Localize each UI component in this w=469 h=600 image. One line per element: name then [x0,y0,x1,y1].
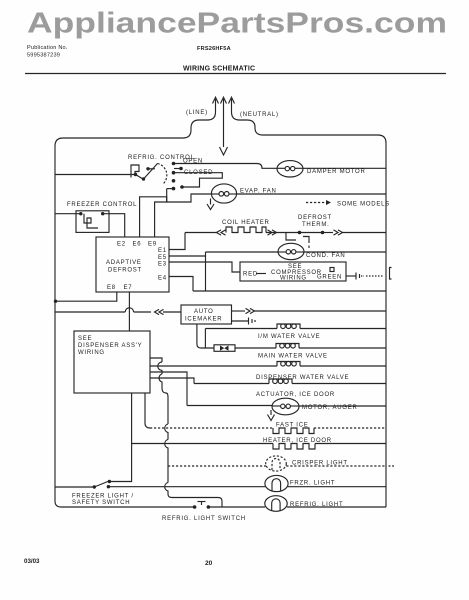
connector chevrons coil heater right [268,230,277,235]
svg-text:MAIN WATER VALVE: MAIN WATER VALVE [258,354,328,360]
svg-text:FRS26HF5A: FRS26HF5A [197,46,231,52]
svg-text:SEE: SEE [78,336,92,342]
wire heater ice door to right bus [315,443,386,445]
lamp refrig light DS3 [265,496,287,512]
svg-text:DAMPER MOTOR: DAMPER MOTOR [307,169,366,175]
wire dispenser feed down with hops [150,358,222,507]
svg-text:COND. FAN: COND. FAN [306,253,345,259]
wire crisper row left dashed [168,465,266,467]
lamp crisper light DS1 (dashed) [266,456,287,471]
svg-text:E3: E3 [158,262,167,268]
connector bracket right of bus [390,268,392,280]
label DEFROST THERM. [298,215,332,228]
svg-text:ACTUATOR, ICE DOOR: ACTUATOR, ICE DOOR [256,392,335,398]
wire E5 to junction [169,255,206,257]
wire coil heater row left [185,232,217,234]
resistor coil heater [226,227,266,233]
dispenser assembly box [74,331,150,393]
cond fan motor M3 [206,243,305,259]
svg-text:E9: E9 [148,242,157,248]
label pins E2 E6 E9 [117,242,157,248]
wire crisper to right bus dashed [286,465,386,467]
fuse main water valve F1 [214,345,235,352]
svg-text:E4: E4 [158,276,167,282]
evap fan motor M2 [211,184,236,203]
wire safety switch to dispenser box [109,393,131,482]
wire left bus (LINE) [55,146,61,507]
node NEUTRAL supply arrow [229,97,240,120]
wire heater ice door row left [132,443,273,445]
wire fuse to main valve coil [235,347,276,349]
wire dispenser valve row [150,365,277,367]
svg-text:ADAPTIVE: ADAPTIVE [106,260,142,266]
wire refrig light row to lamp [208,506,265,508]
node LINE supply arrow [208,97,219,120]
node freezer control terminal 1 [79,212,82,215]
wire CLOSED contact zigzag [174,173,223,187]
ground auger motor case [268,410,275,421]
svg-text:(LINE): (LINE) [186,110,208,116]
svg-text:E6: E6 [133,242,142,248]
wire bus tap to refrig control pole [55,174,135,176]
svg-text:RED: RED [243,272,258,278]
switch freezer light safety S2 [93,480,112,489]
wire OPEN contact to damper motor [174,164,278,169]
node refrig control pole dot [134,173,137,176]
label ADAPTIVE DEFROST [106,260,142,274]
svg-text:ICEMAKER: ICEMAKER [185,317,222,323]
node ground prong arrow [220,97,228,155]
svg-text:E7: E7 [124,285,133,291]
svg-text:DEFROST: DEFROST [108,268,142,274]
wire E6 riser to refrig control [166,189,168,202]
svg-text:FREEZER CONTROL: FREEZER CONTROL [67,202,137,208]
node contact CLOSED [172,171,176,175]
switch refrig control arm [136,164,158,181]
wire I/M valve row left [205,329,277,349]
wire fast ice to right bus dashed [314,427,386,429]
wire E3 to compressor box [169,262,240,272]
svg-text:DISPENSER WATER VALVE: DISPENSER WATER VALVE [256,375,349,381]
svg-text:AppliancePartsPros.com: AppliancePartsPros.com [27,8,447,40]
legend SOME MODELS dashed arrow [306,200,331,205]
switch refrig light S3 [193,502,210,509]
wire E4 riser [169,277,193,292]
wire actuator to right bus [292,383,386,385]
svg-text:COIL HEATER: COIL HEATER [222,220,270,226]
connector stub right of bus at crisper row [389,465,395,467]
wire E6 riser [140,197,167,237]
node contact lower mid [172,179,176,183]
switch freezer control bimetal step [84,214,98,228]
header rule [25,73,446,75]
wire icemaker feed from left bus with hop [55,308,151,312]
capacitor mark in compressor box [330,268,334,272]
compressor wiring box [240,262,346,281]
wire icemaker box to main valve row [197,324,214,348]
svg-text:AUTO: AUTO [194,309,214,315]
solenoid dispenser water valve L3 [277,361,300,366]
svg-text:GREEN: GREEN [317,275,342,281]
lamp freezer light DS2 [265,475,288,491]
svg-text:I/M WATER VALVE: I/M WATER VALVE [258,334,320,340]
wire compressor to right bus dashed [366,275,384,277]
resistor fast ice R1 [273,428,314,434]
wire auger row left [187,405,272,407]
resistor heater ice door R2 [273,444,315,450]
wire bus tap to freezer light switch [55,486,94,488]
node contact joint dot [180,185,184,189]
wire auger motor to right bus [299,405,386,407]
connector chevrons defrost right [334,230,343,235]
svg-text:WIRING SCHEMATIC: WIRING SCHEMATIC [183,66,255,73]
wire icemaker output to right bus [254,310,386,312]
svg-text:Publication No.: Publication No. [27,45,68,51]
svg-text:E2: E2 [117,242,126,248]
wire main valve to right bus [299,347,386,349]
label pins E1 E5 E3 E4 [158,248,167,282]
wire freezer light to right bus [288,486,386,488]
wire fast ice row left dashed [150,427,273,429]
wire evap fan to right bus [237,193,387,195]
node refrig control aux contact [146,167,155,170]
wire icemaker output [232,310,246,312]
wire coil heater to therm [266,232,299,234]
wire E7 riser to dispenser box [128,292,130,331]
solenoid I/M water valve L1 [277,324,300,329]
node freezer control terminal 2 [101,212,104,215]
defrost thermostat S1 [286,231,324,248]
wire E9 riser to evap fan [155,194,212,237]
connector chevrons icemaker feed [155,309,164,314]
wire chevron to icemaker box [163,311,181,313]
wire E8 to left bus [54,292,117,303]
wire junction vertical cond fan to lower row [205,252,207,291]
svg-text:E5: E5 [158,255,167,261]
solenoid main water valve L2 [276,343,299,348]
wire damper motor to right bus [303,167,386,169]
adaptive defrost board U1 [96,237,169,292]
wire refrig light row from bus [61,506,194,508]
wire dispenser box to auger motor riser [150,372,187,406]
label SEE COMPRESSOR WIRING [271,264,322,282]
wire freezer control to E2 [103,214,125,237]
svg-text:DEFROST: DEFROST [298,215,332,221]
wire defrost row to right bus [342,232,386,234]
label RED [243,272,258,278]
switch refrig control bimetal [131,165,139,178]
svg-text:FREEZER LIGHT /: FREEZER LIGHT / [72,494,134,500]
auger motor M4 [272,398,299,415]
freezer control box [76,211,109,233]
wire LINE feed to left bus [55,120,208,146]
wire I/M valve to right bus [300,328,386,330]
wire dispenser box to actuator riser [150,378,194,384]
wire right bus (NEUTRAL) [385,143,387,507]
ground evap fan case [207,199,214,210]
wire icemaker test stub [232,318,256,325]
damper motor M1 [277,161,303,177]
wire fast ice riser from dispenser box [145,393,150,428]
wire freezer light row [108,486,265,488]
svg-text:20: 20 [205,560,213,567]
node contact OPEN [172,162,176,166]
wire E4 row to right bus [193,290,386,292]
wire E1 to coil heater row [169,233,185,250]
node contact aux right [174,167,183,171]
svg-text:SOME MODELS: SOME MODELS [337,202,390,208]
wire actuator row [194,383,269,385]
switch refrig control travel arc (dashed) [158,164,167,185]
svg-text:E8: E8 [107,285,116,291]
node contact bottom (to E6) [167,187,176,191]
svg-text:DISPENSER ASS'Y: DISPENSER ASS'Y [78,343,142,349]
label pins E8 E7 [107,285,132,291]
wire refrig light to right bus [287,506,386,508]
connector chevrons coil heater left [217,230,226,235]
wire cond fan to right bus [304,251,386,253]
wire RED stub [256,273,266,275]
svg-text:5995387239: 5995387239 [27,53,60,59]
svg-text:WIRING: WIRING [280,276,307,282]
wire dispenser valve to right bus [300,365,386,367]
wire therm to right bus [323,232,334,234]
auto icemaker box [181,305,232,324]
svg-text:03/03: 03/03 [24,558,40,565]
svg-text:E1: E1 [158,248,167,254]
svg-text:FRZR. LIGHT: FRZR. LIGHT [290,481,335,487]
label AUTO ICEMAKER [185,309,222,323]
label SEE DISPENSER ASS'Y WIRING [78,336,142,356]
svg-text:THERM.: THERM. [302,222,330,228]
connector compressor green lead [346,273,364,280]
wire bus tap to freezer control [55,213,81,215]
label FREEZER LIGHT / SAFETY SWITCH [72,494,134,507]
svg-text:(NEUTRAL): (NEUTRAL) [240,112,279,118]
solenoid actuator ice door L4 [269,379,292,384]
connector chevrons icemaker output [246,308,255,313]
svg-text:WIRING: WIRING [78,350,105,356]
svg-text:REFRIG. LIGHT SWITCH: REFRIG. LIGHT SWITCH [162,516,246,522]
wire NEUTRAL feed to right bus [240,120,387,143]
svg-text:SAFETY SWITCH: SAFETY SWITCH [72,500,130,506]
